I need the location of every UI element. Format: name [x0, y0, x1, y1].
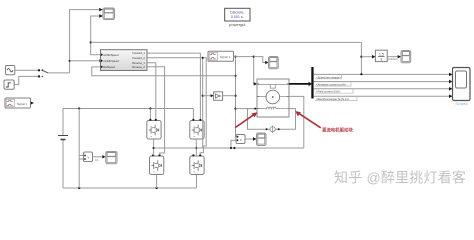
svg-text:v: v [240, 138, 242, 142]
power rail top [63, 108, 193, 110]
bus selector black bar [311, 67, 313, 99]
svg-text:Signal 1: Signal 1 [220, 55, 231, 59]
svg-text:position: position [388, 57, 398, 61]
MOSFET BL [150, 154, 164, 174]
bus selector output row 4 [314, 94, 453, 101]
svg-text:RefSpeed: RefSpeed [103, 65, 115, 69]
svg-text:m: m [153, 172, 155, 174]
step source HV [4, 80, 14, 89]
svg-text:Signal 1: Signal 1 [17, 102, 28, 106]
manual switch [38, 69, 48, 78]
MOSFET TL [147, 119, 161, 139]
wire gate out1 to TR gate [147, 53, 200, 119]
scope small above motor [269, 57, 279, 69]
svg-text:1.5: 1.5 [379, 52, 384, 56]
wire left midpoint to armature [154, 147, 304, 149]
wire long speed feedback line [91, 41, 362, 43]
wire measurement bus to bus selector (thick) [289, 83, 310, 85]
voltage measurement V2 [236, 135, 245, 144]
MOSFET BR [190, 154, 204, 174]
motor ports [257, 84, 289, 109]
svg-text:m: m [150, 136, 152, 138]
svg-text:0.001 s.: 0.001 s. [231, 15, 244, 19]
wire sine to switch [15, 69, 38, 71]
wire speed feedback to scope1 input2 [91, 16, 100, 42]
wire speed line to subsystem in1 [91, 42, 101, 54]
wire feedback to subsystem in3 [235, 57, 238, 137]
wire to transfer fn [361, 56, 372, 58]
svg-text:Discrete,: Discrete, [230, 10, 244, 14]
wire vmeas2 to scope3 [245, 138, 254, 140]
wire BL bottom to rail [156, 175, 158, 189]
svg-text:直流电机驱动块: 直流电机驱动块 [322, 127, 353, 134]
wire SB2 output to motor TL port [234, 57, 255, 84]
svg-text:Forward_1: Forward_1 [132, 51, 145, 55]
scope Scope3 [257, 133, 267, 146]
node SB2 branch [253, 56, 255, 58]
bus selector output row 2 [314, 80, 453, 87]
signal builder SB1 [5, 98, 34, 108]
wire TR source to BR drain (midpoint) [195, 139, 197, 155]
sine wave source [6, 66, 15, 75]
svg-text:Forward_2: Forward_2 [132, 56, 145, 60]
scope big Scope4 [453, 68, 471, 107]
signal builder SB2 [208, 51, 234, 61]
battery DC source [58, 109, 68, 189]
wire into NOT block [203, 95, 211, 97]
scope bottom-left [106, 152, 117, 164]
wire rail down to TR mosfet [192, 109, 194, 120]
wire motor left port3 to vmeas vertical [236, 108, 258, 110]
svg-text:<Speed wrt chassis>: <Speed wrt chassis> [316, 75, 341, 79]
svg-text:<Electrical torque Te (N m)>: <Electrical torque Te (N m)> [316, 97, 350, 101]
node speed junction [90, 41, 92, 43]
node speed to TF junction [360, 42, 362, 74]
bus selector output row 3 [314, 87, 453, 94]
MOSFET TR [190, 119, 204, 139]
svg-text:<Field current if (A)>: <Field current if (A)> [316, 90, 341, 94]
red annotation arrow right [298, 113, 321, 128]
powergui block [225, 8, 250, 27]
scope U_Scope1 top-left [103, 8, 115, 20]
scope position [401, 51, 411, 63]
svg-text:minMtrSpeed: minMtrSpeed [103, 59, 119, 63]
red annotation arrow left [235, 114, 255, 128]
wire sine/switch to scope1 input1 [70, 10, 100, 73]
NOT logic block [214, 92, 223, 101]
wire SB2 to small scope [254, 57, 266, 63]
wire rail to vmeas1 [79, 109, 83, 189]
svg-text:知乎 @醉里挑灯看客: 知乎 @醉里挑灯看客 [334, 170, 466, 186]
svg-text:AvrMtrSpeed: AvrMtrSpeed [103, 53, 119, 57]
bus selector output row 1 [314, 73, 453, 80]
svg-text:<Armature current ia (A)>: <Armature current ia (A)> [316, 83, 347, 87]
wire BR bottom to rail [196, 175, 198, 189]
wire gate out2 to BR gate [147, 58, 206, 155]
wire TL source to BL drain (midpoint) [153, 139, 155, 155]
svg-text:s: s [380, 58, 382, 62]
bottom rail [63, 187, 197, 189]
svg-text:Reverse_1: Reverse_1 [132, 61, 145, 65]
motor DC machine block [257, 79, 289, 117]
svg-text:v: v [87, 156, 89, 160]
wire switch output [48, 72, 70, 74]
wire NOT output [223, 95, 236, 97]
wire armature loop bottom [248, 109, 296, 130]
node switch-out junction [69, 60, 71, 62]
wire step to switch [14, 76, 38, 84]
svg-text:m: m [193, 172, 195, 174]
subsystem controller [101, 50, 148, 71]
voltage measurement V1 [84, 152, 93, 162]
svg-text:Reverse_2: Reverse_2 [132, 65, 145, 69]
svg-text:m: m [193, 136, 195, 138]
wire gate out3 to TL gate [147, 63, 156, 119]
wire rail down to TL mosfet [149, 109, 151, 120]
wire gate out4 to BL gate [147, 67, 165, 155]
ammeter current sensor inline [266, 126, 280, 133]
svg-text:Scope4: Scope4 [455, 102, 467, 106]
wire vmeas1 to bottom-left scope [93, 156, 103, 158]
wire tf to position scope [387, 56, 398, 58]
wire junction to subsystem in2 [70, 60, 101, 62]
svg-text:powergui: powergui [229, 22, 245, 27]
wire motor right port2 down [289, 96, 304, 148]
transfer fn integrator [375, 50, 387, 61]
